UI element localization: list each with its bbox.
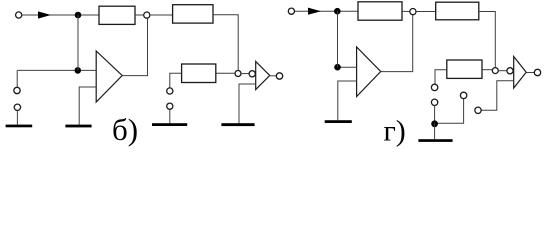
ground op-amp U1r (325, 120, 352, 123)
wire buffer output right (526, 72, 534, 74)
resistor R2 (173, 5, 213, 23)
terminal output left-circuit (276, 73, 282, 79)
wire node to R2 (150, 14, 173, 16)
wire Q down and left to dot (435, 99, 464, 124)
terminal circle G (14, 104, 20, 110)
wire R3 to D (216, 72, 235, 74)
wire L2 to ground (169, 109, 171, 123)
wire dot to ground (434, 123, 436, 139)
terminal circle N1 (431, 84, 437, 90)
terminal input left-circuit (16, 12, 22, 18)
wire R1 to node (135, 14, 144, 16)
terminal input right-circuit (288, 8, 294, 14)
node circle E2r (507, 68, 513, 74)
op-amp U1r (357, 47, 381, 97)
wire buffer output (270, 75, 277, 77)
terminal circle F (14, 87, 20, 93)
ground middle pair (152, 123, 187, 126)
svg-text:б): б) (112, 112, 138, 147)
wire R3 left down to terminal (170, 73, 182, 87)
wire buffer lower input to ground (239, 84, 256, 123)
wire G to ground (16, 111, 18, 125)
terminal circle L2 (167, 103, 173, 109)
op-amp buffer U2 (256, 62, 270, 90)
wire vertical from top dot (77, 15, 79, 70)
wire N2 down to dot (434, 106, 436, 124)
wire node to R2r (416, 11, 436, 13)
junction dot top (75, 12, 82, 19)
node circle E2 (249, 71, 255, 77)
op-amp U1 (96, 51, 122, 102)
wire upper input right (338, 66, 357, 68)
ground buffer (221, 123, 254, 126)
node circle Cr (410, 9, 416, 15)
wire lower input to ground (79, 87, 96, 125)
terminal circle M (475, 107, 481, 113)
node circle D (235, 71, 241, 77)
wire upper input line (17, 69, 96, 71)
node circle Dr (492, 68, 498, 74)
wire vertical from top dot right (337, 11, 339, 67)
wire R3r left down (435, 70, 447, 84)
wire U1 output feedback up (122, 18, 147, 75)
wire lower input to ground right (338, 81, 357, 120)
wire input to R1r (295, 10, 358, 12)
junction dot top right (334, 8, 341, 15)
junction dot ground right (431, 120, 438, 127)
op-amp buffer U2r (514, 57, 527, 89)
junction dot input right (334, 64, 341, 71)
terminal circle N2 (431, 99, 437, 105)
node circle between R1 R2 (144, 12, 150, 18)
terminal circle L1 (167, 88, 173, 94)
resistor R1 (99, 6, 135, 24)
wire R1r to node (402, 10, 410, 12)
wire D to E2 (241, 73, 249, 75)
wire Dr to E2r (498, 70, 506, 72)
terminal output right-circuit (534, 69, 540, 75)
resistor R2r (436, 2, 479, 20)
resistor R1r (358, 2, 402, 20)
ground bottom right (418, 139, 452, 142)
svg-text:г): г) (384, 115, 406, 148)
wire left terminal vertical (16, 70, 18, 87)
wire R3r to Dr (482, 69, 492, 71)
wire R2 right and down (213, 15, 238, 71)
ground left terminal (6, 125, 33, 128)
ground op-amp U1 (65, 125, 91, 128)
resistor R3 (182, 64, 216, 83)
resistor R3r (447, 60, 482, 78)
arrow signal direction right (308, 8, 321, 15)
arrow signal direction (38, 11, 51, 18)
wire buffer lower input path (481, 81, 513, 111)
wire U1r output feedback up (381, 15, 413, 72)
junction dot on input (75, 67, 82, 74)
wire input to R1 (22, 14, 99, 16)
wire R2r right and down (479, 12, 496, 68)
terminal circle Q (460, 92, 466, 98)
